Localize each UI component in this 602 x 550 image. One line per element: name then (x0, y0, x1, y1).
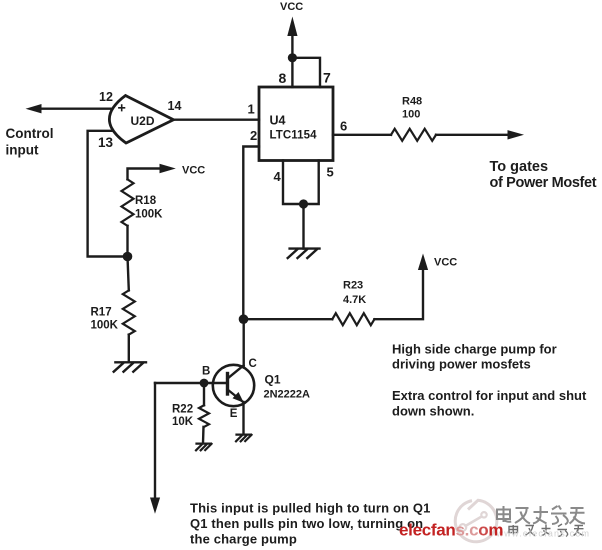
wire R18 top to VCC arrow (128, 169, 162, 180)
svg-text:6: 6 (340, 119, 347, 134)
svg-text:13: 13 (98, 135, 114, 150)
wire VCC top (291, 34, 293, 58)
wire junction to R23 (244, 318, 333, 320)
svg-text:R23: R23 (343, 280, 363, 292)
node junction dot R17/R18/pin13 (123, 252, 133, 262)
svg-text:elecfans.com: elecfans.com (399, 521, 503, 540)
svg-text:4: 4 (274, 169, 282, 184)
wire junction to R18 (126, 226, 128, 257)
wire pin 13 to junction (88, 131, 126, 257)
wire R48 to output arrow (436, 134, 509, 136)
svg-text:U2D: U2D (131, 114, 155, 128)
svg-text:C: C (249, 358, 257, 370)
arrow control input (26, 104, 42, 113)
transistor Q1 base bar (226, 374, 229, 395)
arrow to gates (508, 130, 525, 139)
svg-text:E: E (230, 408, 238, 420)
svg-text:4.7K: 4.7K (343, 294, 366, 306)
transistor Q1 circle (213, 365, 254, 406)
svg-text:Q1: Q1 (265, 373, 281, 387)
svg-text:5: 5 (327, 165, 334, 180)
watermark big chinese chars (drawn strokes) (497, 506, 585, 525)
transistor Q1 emitter arrow (233, 392, 244, 403)
wire pin 4 and pin 5 down (283, 161, 319, 205)
transistor Q1 collector stroke (228, 366, 244, 379)
wire shutdown input down (154, 383, 156, 499)
ground R17 (114, 362, 146, 371)
svg-text:Q1 then pulls pin two low, tur: Q1 then pulls pin two low, turning on (190, 516, 423, 531)
ground emitter (236, 435, 252, 442)
resistor R17 (123, 290, 135, 334)
ground R22 (196, 444, 212, 451)
svg-text:of Power Mosfet: of Power Mosfet (490, 175, 597, 191)
svg-text:14: 14 (168, 99, 182, 113)
svg-text:VCC: VCC (182, 165, 205, 177)
wire base junction to R22 (203, 383, 205, 405)
wire R17 to ground (128, 335, 130, 363)
svg-text:100K: 100K (135, 209, 163, 221)
ground IC (288, 249, 320, 258)
wire pin 7 up and over (292, 58, 320, 87)
wire R23 to VCC corner (374, 268, 423, 319)
svg-text:2N2222A: 2N2222A (264, 389, 311, 401)
node collector junction dot (239, 314, 249, 324)
node pin4/5 junction dot (299, 199, 308, 208)
watermark small chinese row (drawn strokes) (509, 524, 584, 537)
IC U4 box (259, 87, 333, 161)
svg-text:Control: Control (6, 126, 54, 141)
svg-text:the charge pump: the charge pump (190, 532, 297, 547)
svg-text:8: 8 (279, 70, 287, 86)
wire base (155, 382, 228, 384)
svg-text:U4: U4 (270, 114, 286, 128)
watermark logo circle (455, 500, 497, 542)
wire pin 8 up (291, 58, 293, 87)
svg-text:This input is pulled high to t: This input is pulled high to turn on Q1 (190, 501, 431, 516)
wire collector up to junction (242, 319, 244, 366)
svg-text:LTC1154: LTC1154 (270, 130, 318, 142)
svg-text:2: 2 (250, 128, 257, 143)
svg-text:To gates: To gates (490, 159, 549, 175)
wire op-amp output to pin 1 (172, 118, 259, 120)
resistor R48 (391, 129, 436, 141)
resistor R23 (332, 313, 374, 325)
svg-text:1: 1 (248, 102, 255, 117)
arrow shutdown input (150, 498, 160, 514)
wire junction to R17 (128, 257, 129, 291)
svg-text:driving power mosfets: driving power mosfets (392, 357, 531, 372)
svg-text:B: B (202, 366, 210, 378)
svg-text:R17: R17 (91, 307, 112, 319)
arrow VCC R23 (418, 254, 428, 271)
wire pin 2 down to collector junction (243, 147, 259, 319)
svg-text:R18: R18 (135, 195, 157, 207)
resistor R22 (199, 405, 209, 427)
node pin8/pin7 junction dot (288, 53, 297, 62)
wire emitter down (242, 402, 244, 434)
svg-text:R48: R48 (402, 96, 422, 108)
svg-text:down shown.: down shown. (392, 404, 474, 419)
svg-text:VCC: VCC (280, 1, 303, 13)
svg-text:100K: 100K (91, 320, 119, 332)
wire R22 to ground (202, 427, 205, 443)
svg-text:7: 7 (323, 70, 331, 86)
op-amp U2D (109, 96, 173, 144)
node base junction dot (200, 379, 209, 388)
arrow VCC top (287, 17, 297, 37)
transistor Q1 emitter stroke (228, 390, 243, 402)
arrow VCC R18 (160, 164, 176, 174)
svg-text:Extra control for input and sh: Extra control for input and shut (392, 388, 587, 403)
svg-text:VCC: VCC (434, 257, 457, 269)
resistor R18 (122, 179, 134, 225)
op-amp plus input mark (119, 105, 125, 111)
svg-text:www.elecfans.com: www.elecfans.com (496, 529, 591, 539)
svg-text:High side charge pump for: High side charge pump for (392, 342, 557, 357)
svg-text:100: 100 (402, 109, 420, 121)
wire control input (pin 12) (40, 107, 111, 109)
wire to IC ground (302, 204, 304, 249)
svg-text:R22: R22 (172, 404, 193, 416)
svg-text:12: 12 (99, 90, 113, 104)
wire pin 6 to R48 (333, 134, 391, 136)
svg-text:10K: 10K (172, 416, 194, 428)
svg-text:input: input (6, 143, 39, 158)
